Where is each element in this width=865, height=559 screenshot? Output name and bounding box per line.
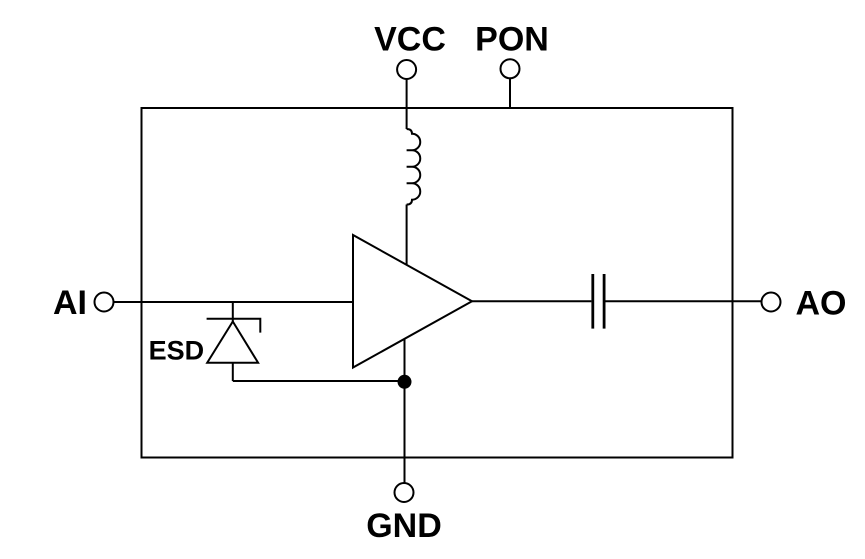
terminal AI (95, 293, 114, 312)
capacitor C1 (593, 274, 604, 329)
wire amplifier output (472, 300, 591, 302)
wire AI input (114, 301, 354, 303)
svg-text:AI: AI (53, 284, 87, 322)
inductor L1 (407, 129, 421, 205)
wire capacitor to AO (606, 300, 762, 302)
wire ESD to ground (233, 380, 405, 382)
svg-text:VCC: VCC (374, 21, 446, 59)
terminal GND (395, 483, 414, 502)
svg-text:PON: PON (475, 21, 549, 59)
svg-text:GND: GND (366, 507, 442, 545)
svg-text:ESD: ESD (149, 336, 205, 366)
ESD diode cathode bar (207, 319, 261, 333)
block boundary box (142, 108, 733, 458)
terminal AO (762, 293, 781, 312)
svg-text:AO: AO (796, 285, 847, 323)
terminal VCC (397, 60, 416, 79)
amplifier U1 (353, 235, 472, 368)
wire ESD tap (232, 302, 234, 322)
wire VCC stem (406, 79, 408, 129)
wire amplifier to GND (404, 339, 406, 483)
ESD diode D1 (207, 322, 258, 363)
wire PON stem (509, 78, 511, 107)
wire inductor to amplifier (406, 205, 408, 265)
junction dot (398, 375, 412, 389)
terminal PON (501, 59, 520, 78)
wire ESD anode drop (232, 363, 234, 381)
